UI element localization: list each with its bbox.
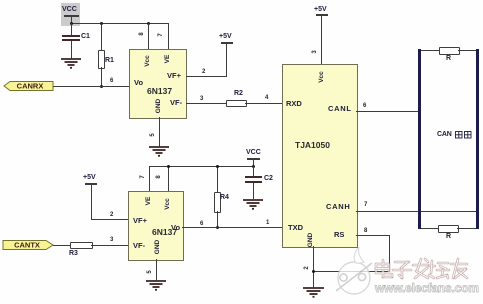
wire bus bottom left segment: [421, 228, 438, 229]
resistor R4 top lead: [217, 166, 218, 192]
capacitor C2 bottom lead: [253, 183, 254, 199]
power VCC (right of U2) stem: [253, 159, 254, 167]
power +5V (U2) bar: [85, 183, 97, 185]
U1 label Vcc (rotated): [145, 55, 152, 67]
capacitor C2 plates: [245, 176, 262, 178]
pin number 8 (U2): [156, 175, 162, 178]
node junction RS/GND: [312, 270, 315, 273]
power +5V (U1) label: [219, 33, 232, 40]
pin number 7 (U2): [140, 175, 146, 178]
U2 pin8 top lead: [168, 166, 169, 191]
wire bus top left segment: [421, 50, 439, 51]
U2 label VF+: [133, 217, 147, 225]
pin number 6 (U2.Vo): [200, 221, 203, 227]
resistor R1 body: [98, 50, 105, 69]
capacitor C1 top lead: [71, 23, 72, 35]
resistor R4 bottom lead: [217, 211, 218, 227]
U3 label TJA1050: [295, 141, 330, 150]
U2 label Vo: [171, 224, 180, 232]
pin number 6 (U1.Vo): [110, 78, 113, 84]
power VCC (top-left) bar: [64, 15, 79, 17]
optocoupler U1 6N137 body: [129, 49, 187, 119]
U1 label VF+: [167, 72, 181, 80]
pin number 3 (U3, rotated): [312, 50, 318, 53]
CAN bus left bar: [418, 49, 421, 229]
resistor R3 label: [69, 250, 78, 257]
U1 label GND (rotated): [156, 99, 163, 113]
resistor R (top) label: [446, 55, 451, 62]
U2 label 6N137: [152, 228, 177, 237]
U1 label Vo: [134, 79, 143, 87]
CAN bus right bar: [476, 49, 479, 229]
wire rail above U2 (pin7/pin8 to VCC): [149, 166, 253, 167]
power VCC (top-left) label: [62, 6, 77, 13]
resistor R4 label: [220, 194, 229, 201]
U3 label RXD: [286, 100, 302, 108]
node junction VCC/C2: [252, 165, 255, 168]
wire U1 pin2 to +5V: [186, 76, 227, 77]
U3 pin3 top lead: [321, 15, 322, 64]
pin number 5 (U1, rotated): [150, 133, 156, 136]
resistor R (bottom termination) body: [438, 225, 459, 233]
node junction VCC rail: [70, 22, 73, 25]
U1 label VE (rotated): [165, 55, 172, 64]
wire CANTX to R3: [53, 245, 70, 246]
U2 label VF-: [133, 242, 145, 250]
U2 label GND (rotated): [155, 240, 162, 254]
resistor R (top termination) body: [439, 47, 460, 55]
U3 label CANH: [326, 203, 350, 211]
wire U3 RS right: [356, 235, 390, 236]
pin number 6 (U3.CANL): [363, 103, 366, 109]
U1 pin8 top lead: [148, 23, 149, 49]
U3 label RS: [334, 231, 344, 239]
power +5V (U2) label: [83, 174, 96, 181]
U2 pin7 top lead: [149, 166, 150, 191]
pin number 8 (U3.RS): [364, 228, 367, 234]
pin number 7 (U3.CANH): [364, 202, 367, 208]
capacitor C2 top lead: [253, 166, 254, 177]
pin number 1 (U3.TXD): [266, 220, 269, 226]
node junction R4 bottom: [216, 226, 219, 229]
power +5V (U1) stem: [226, 43, 227, 77]
power VCC (right of U2) label: [246, 149, 261, 156]
U2 pin5 bottom lead: [156, 259, 157, 281]
power VCC (right of U2) bar: [247, 158, 260, 160]
wire R3 to U2 pin3: [91, 245, 128, 246]
wire RS down: [389, 235, 390, 271]
transceiver U3 TJA1050 body: [282, 64, 358, 248]
resistor R2 label: [234, 90, 243, 97]
capacitor C2 label: [264, 175, 273, 182]
pin number 3 (U2): [110, 237, 113, 243]
U1 label VF-: [170, 99, 182, 107]
U1 label 6N137: [147, 87, 172, 96]
U1 pin5 bottom lead: [159, 117, 160, 147]
node junction R1/CANRX: [100, 85, 103, 88]
capacitor C1 bottom lead: [71, 41, 72, 59]
wire R2 to U3 RXD: [245, 103, 283, 104]
power +5V (U3) bar: [316, 14, 328, 16]
pin number 8 (U1): [139, 32, 145, 35]
wire top rail from VCC to U1 pins: [71, 23, 169, 24]
pin number 4 (U3.RXD): [265, 95, 268, 101]
pin number 2 (U3, rotated): [304, 266, 310, 269]
resistor R1 top lead: [101, 23, 102, 50]
watermark text www.elecfans.com: [375, 281, 479, 295]
power +5V (U3) label: [314, 6, 327, 13]
resistor R4 body: [214, 192, 221, 213]
power VCC (top-left) highlight box: [61, 3, 80, 26]
pin number 3 (U1): [200, 96, 203, 102]
U3 label Vcc (rotated): [319, 71, 326, 83]
U3 label TXD: [288, 224, 303, 232]
power VCC (top-left) stem: [71, 16, 72, 24]
pin number 7 (U1): [158, 33, 164, 36]
U2 label Vcc (rotated): [165, 198, 172, 210]
net label CAN bus (CAN总线): [437, 131, 452, 138]
wire bus top right segment: [458, 50, 476, 51]
pin number 2 (U2): [110, 212, 113, 218]
node junction U1 pin8 top: [147, 22, 150, 25]
U1 pin7 top lead: [168, 23, 169, 49]
resistor R (bottom) label: [446, 233, 451, 240]
pin number 2 (U1): [202, 69, 205, 75]
capacitor C1 plates: [62, 35, 80, 37]
power +5V (U2) stem: [91, 184, 92, 220]
U3 label GND (rotated): [308, 233, 315, 247]
resistor R1 label: [105, 57, 114, 64]
wire U2 pin6 to U3 TXD: [182, 227, 283, 228]
resistor R3 body: [70, 242, 93, 249]
wire U1 pin3 to R2: [186, 103, 226, 104]
U3 pin2 bottom lead: [313, 246, 314, 288]
power +5V (U1) bar: [221, 42, 233, 44]
node junction R4 top: [216, 165, 219, 168]
resistor R1 bottom lead: [101, 67, 102, 86]
wire CANRX to U1 pin6: [53, 86, 129, 87]
pin number 5 (U2, rotated): [147, 270, 153, 273]
wire U3 CANL to bus: [356, 111, 418, 112]
node junction U2 pin8 rail: [167, 165, 170, 168]
capacitor C1 label: [81, 33, 90, 40]
optocoupler U2 6N137 body: [128, 191, 184, 261]
wire U3 CANH to bus right bar: [356, 211, 476, 212]
wire +5V to U2 pin2: [91, 219, 128, 220]
wire RS return to GND: [313, 271, 390, 272]
U2 label VE (rotated): [146, 197, 153, 206]
node junction R1 top: [100, 22, 103, 25]
U3 label CANL: [328, 105, 352, 113]
wire bus bottom right segment: [457, 228, 476, 229]
resistor R2 body: [226, 100, 247, 107]
